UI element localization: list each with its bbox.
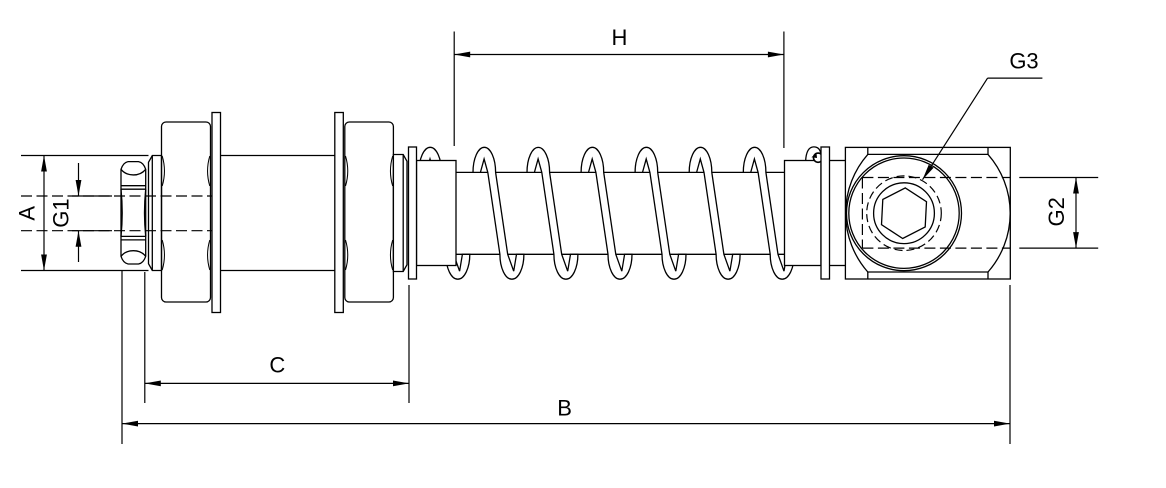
thread dashed circle G3 <box>867 176 942 251</box>
block inner top line <box>868 147 988 154</box>
leader G3 <box>923 78 988 180</box>
washer 1 <box>212 113 221 313</box>
svg-text:B: B <box>557 396 572 421</box>
collar flange left <box>149 156 162 271</box>
block left facet arc <box>846 154 868 272</box>
block inner bottom line <box>868 272 988 279</box>
svg-text:G2: G2 <box>1044 197 1069 226</box>
dim G2 line <box>1075 178 1077 249</box>
neck bottom <box>830 265 846 267</box>
wire junction wedge <box>811 153 817 158</box>
svg-text:G3: G3 <box>1009 49 1038 74</box>
spring coil 3 <box>527 147 578 279</box>
dim A extension top <box>21 155 149 157</box>
dim B extension right <box>1009 285 1011 444</box>
svg-text:A: A <box>15 206 40 221</box>
boss outer circle <box>847 156 962 271</box>
hex facet line upper <box>121 185 146 187</box>
dim B extension left <box>121 270 123 444</box>
svg-text:H: H <box>612 25 628 50</box>
collar flange right of nut2 <box>393 155 407 272</box>
hidden thread line bottom <box>21 230 212 232</box>
spring coil 5 <box>635 147 686 279</box>
hex facet arcs <box>121 169 146 175</box>
hex socket <box>882 188 927 239</box>
dim C extension right <box>408 285 410 403</box>
body cylinder top <box>221 155 335 157</box>
spring coil 7 <box>743 147 794 279</box>
dim A line <box>43 156 45 271</box>
hidden socket bore bottom <box>862 247 1010 249</box>
spring coil 2 <box>473 147 524 279</box>
dim G1 bottom arrow <box>78 231 80 262</box>
hex facet line lower <box>121 235 146 237</box>
left spring seat <box>417 161 457 266</box>
small hex nut <box>121 162 146 264</box>
dim G2 extension bottom <box>1019 247 1098 249</box>
nut2 facet arcs <box>346 156 348 186</box>
hidden socket bore top <box>862 177 1010 179</box>
dim G1 top arrow <box>78 163 80 196</box>
dim H line <box>454 54 784 56</box>
wire : rod bottom edge <box>456 253 785 255</box>
spring coil 1 <box>419 147 470 279</box>
dim C extension left <box>144 272 146 403</box>
spring coil 8 <box>806 147 821 162</box>
dim H extension right <box>783 32 785 149</box>
right spring seat <box>785 161 822 266</box>
dim A extension bottom <box>21 270 149 272</box>
large hex nut 2 <box>345 122 394 302</box>
wire : rod top edge <box>456 171 785 173</box>
svg-text:G1: G1 <box>49 198 74 227</box>
body cylinder bottom <box>221 270 335 272</box>
dim B line <box>122 423 1010 425</box>
dim G2 extension top <box>1019 177 1098 179</box>
end block body <box>845 147 1010 279</box>
hidden thread line top <box>21 195 212 197</box>
dim H extension left <box>453 32 455 147</box>
washer 3 <box>409 147 417 279</box>
centerline solid segment bottom <box>72 230 112 232</box>
centerline solid segment top <box>72 195 112 197</box>
svg-text:C: C <box>269 352 285 377</box>
spring wire end cross-section <box>814 153 823 162</box>
washer 2 <box>335 113 344 313</box>
large hex nut 1 <box>162 122 211 302</box>
hidden socket bore left <box>861 178 863 249</box>
block right facet arc <box>988 154 1010 272</box>
dim C line <box>145 382 409 384</box>
neck top <box>830 160 846 162</box>
spring coil 4 <box>581 147 632 279</box>
nut1 facet arcs <box>162 156 164 186</box>
socket bore circle <box>874 183 935 244</box>
spring coil 6 <box>689 147 740 279</box>
washer 4 <box>821 147 830 279</box>
